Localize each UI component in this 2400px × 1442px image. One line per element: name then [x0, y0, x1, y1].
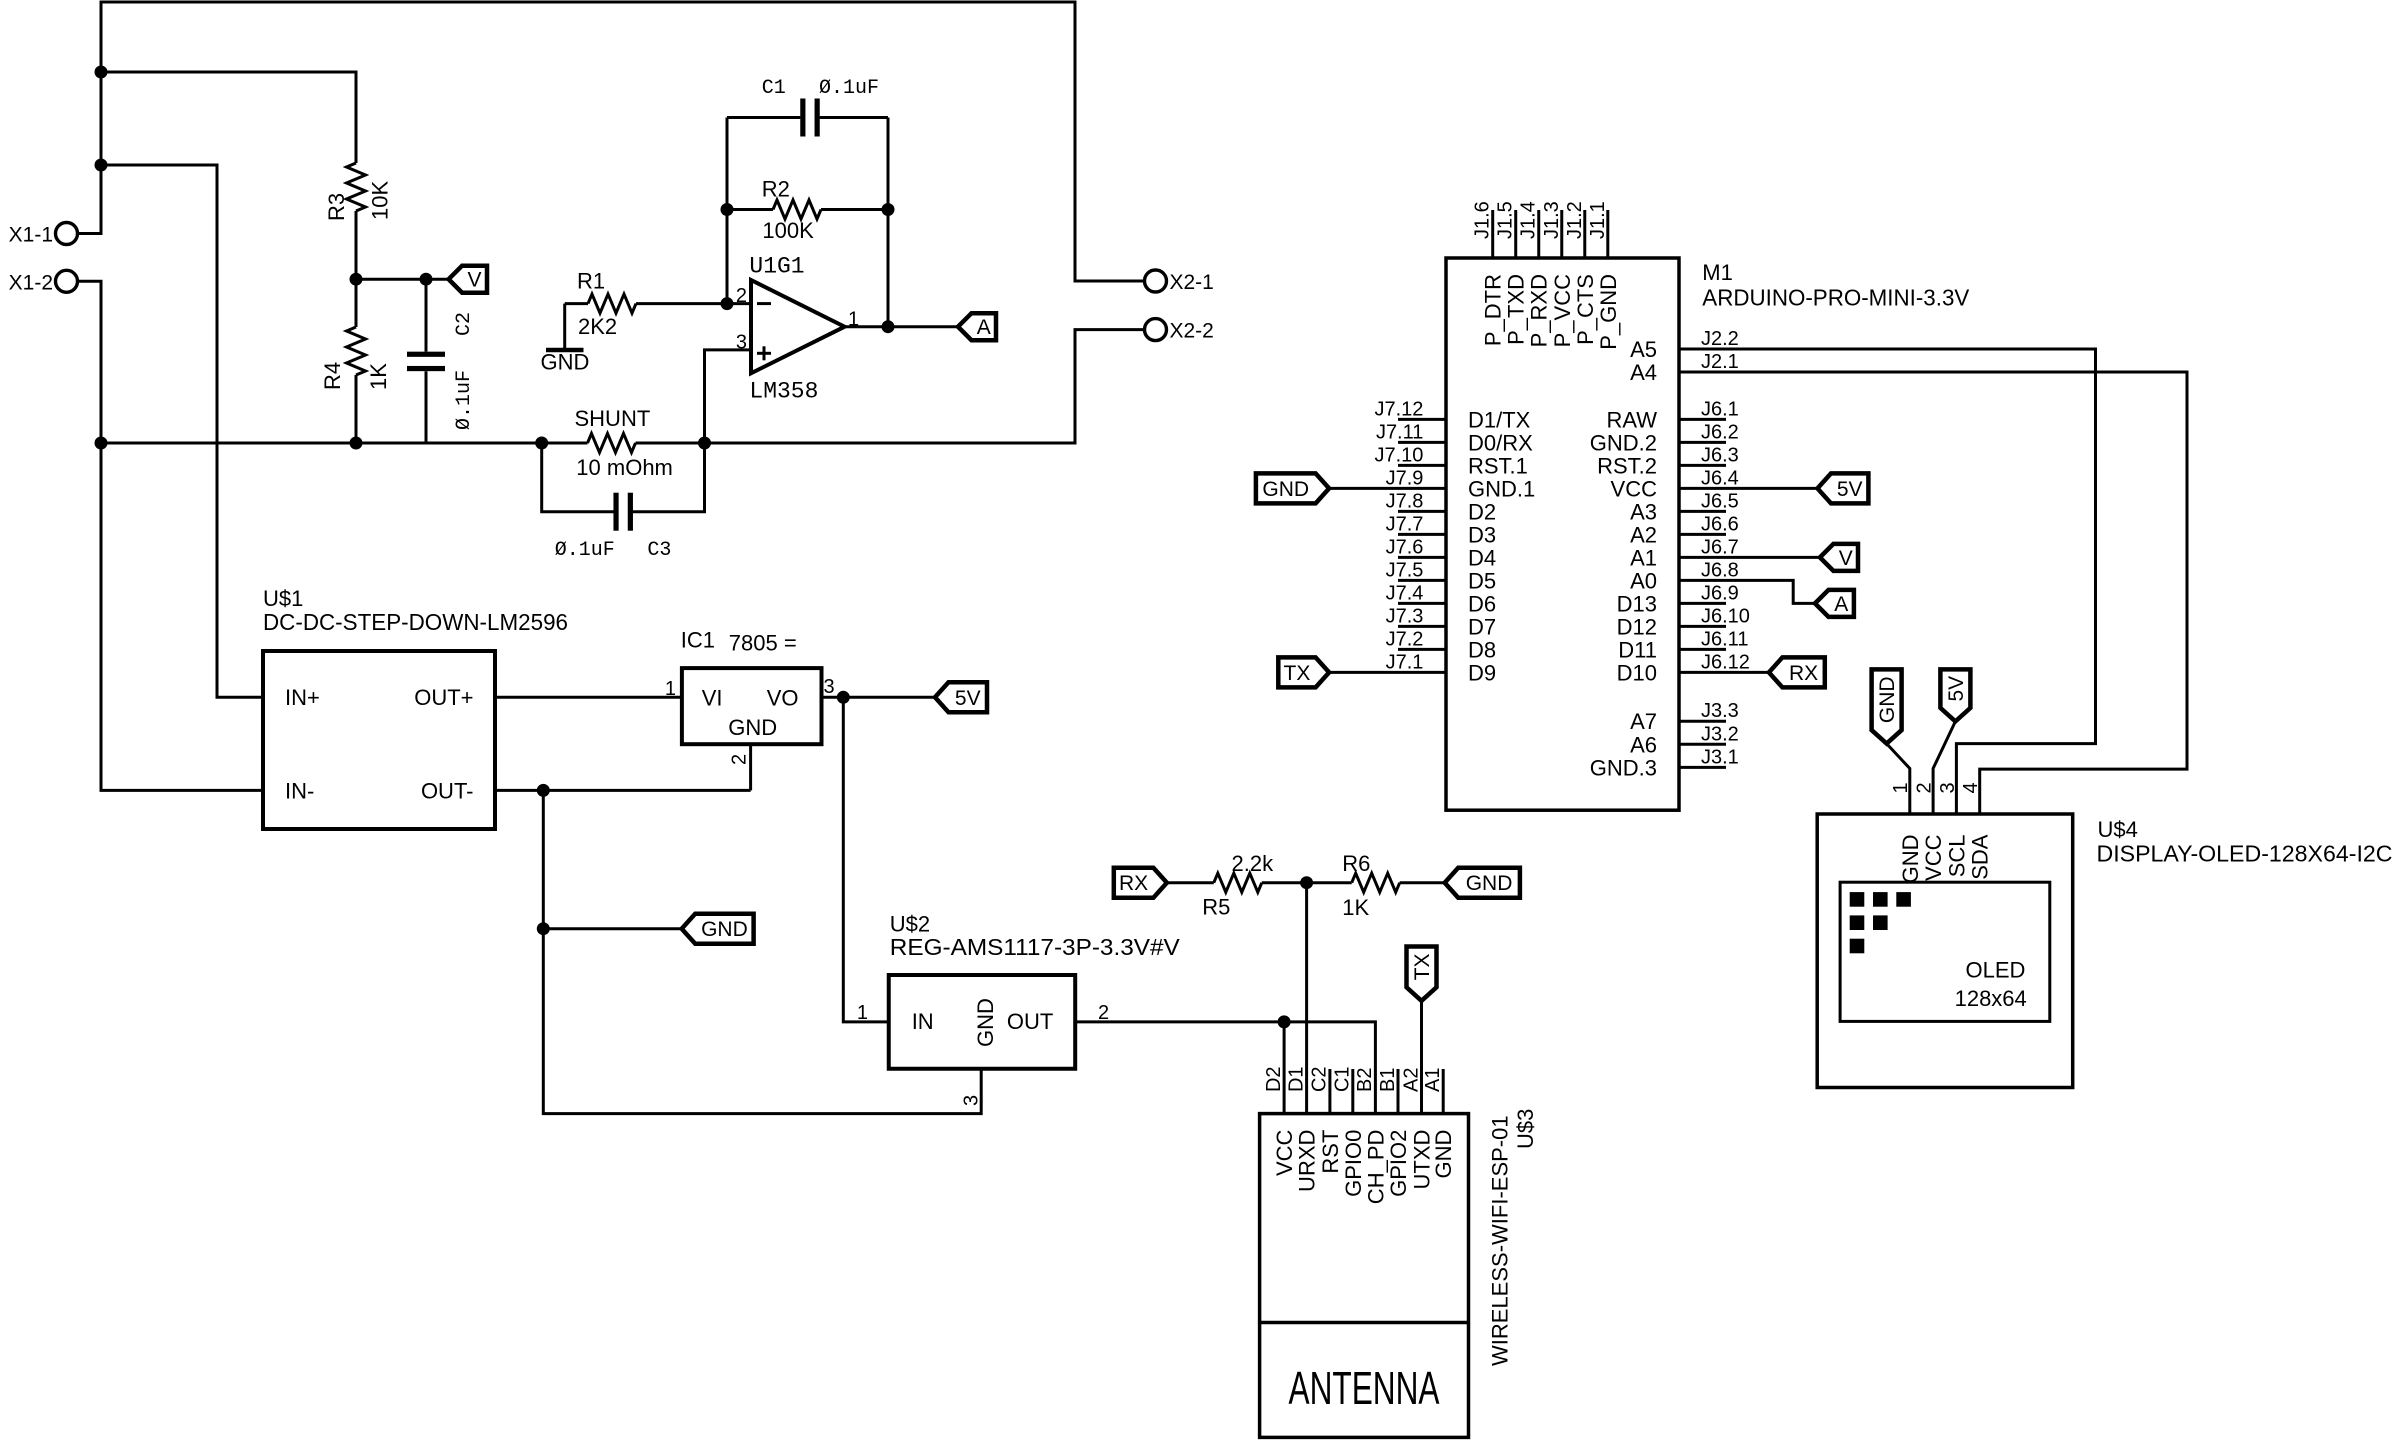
svg-text:V: V — [468, 269, 482, 292]
junction inverting input — [721, 297, 734, 310]
svg-text:IN+: IN+ — [285, 685, 320, 710]
svg-text:IC1: IC1 — [681, 627, 715, 652]
svg-text:GND.2: GND.2 — [1590, 430, 1657, 455]
OLED pixel pattern — [1850, 892, 1865, 907]
svg-text:J1.1: J1.1 — [1587, 201, 1609, 239]
svg-text:D7: D7 — [1468, 614, 1496, 639]
svg-text:J7.5: J7.5 — [1386, 559, 1424, 581]
wire OUT+ to IC1 VI — [495, 696, 682, 699]
svg-text:100K: 100K — [762, 218, 814, 243]
svg-text:X1-1: X1-1 — [9, 224, 53, 247]
svg-text:OUT: OUT — [1007, 1009, 1053, 1034]
svg-text:D12: D12 — [1617, 614, 1657, 639]
svg-text:J2.2: J2.2 — [1701, 328, 1739, 350]
svg-text:2: 2 — [728, 754, 750, 765]
regulator IC1 7805 — [682, 668, 822, 744]
svg-text:VCC: VCC — [1611, 476, 1658, 501]
junction 3.3V at ESP VCC — [1278, 1015, 1291, 1028]
connector X1-1 — [56, 223, 78, 245]
junction V node at C2 — [420, 273, 433, 286]
power flag GND at OLED pin 1 — [1872, 669, 1902, 743]
power flag RX at D10 — [1769, 657, 1825, 687]
power flag GND at GND.1 — [1256, 473, 1329, 503]
svg-text:5V: 5V — [1837, 478, 1863, 501]
pin stub J6.5 — [1679, 510, 1726, 513]
svg-text:A4: A4 — [1630, 360, 1657, 385]
connector X2-1 — [1145, 270, 1167, 292]
pin stub J7.11 — [1398, 441, 1446, 444]
power flag RX — [1114, 868, 1167, 898]
module U$3 WIRELESS-WIFI-ESP-01 — [1260, 1114, 1469, 1438]
wire GND flag to OLED pin 1 — [1887, 744, 1910, 814]
module M1 ARDUINO-PRO-MINI-3.3V — [1446, 258, 1679, 810]
svg-text:J7.4: J7.4 — [1386, 582, 1424, 604]
svg-text:D13: D13 — [1617, 591, 1657, 616]
svg-text:J6.8: J6.8 — [1701, 559, 1739, 581]
wire X1-2 down to U$1 IN- — [79, 281, 263, 790]
svg-text:J7.9: J7.9 — [1386, 467, 1424, 489]
wire shunt rail left — [101, 442, 588, 445]
wire R4 top — [355, 279, 358, 327]
op-amp U1G1 LM358 — [751, 280, 845, 373]
svg-text:DC-DC-STEP-DOWN-LM2596: DC-DC-STEP-DOWN-LM2596 — [263, 609, 568, 635]
junction R2 left — [721, 203, 734, 216]
svg-text:J6.10: J6.10 — [1701, 605, 1750, 627]
pin stub J7.4 — [1398, 602, 1446, 605]
wire GND rail down — [543, 790, 981, 1113]
svg-text:RX: RX — [1119, 872, 1148, 895]
svg-text:C2: C2 — [1309, 1066, 1331, 1092]
svg-text:J1.2: J1.2 — [1564, 201, 1586, 239]
resistor R6 — [1352, 873, 1400, 892]
svg-text:A: A — [977, 316, 991, 339]
wire op-amp pin3 to shunt — [705, 350, 752, 443]
wire branch to R3 top — [101, 72, 356, 163]
junction R2 right — [882, 203, 895, 216]
svg-text:D1: D1 — [1285, 1066, 1307, 1092]
svg-text:OUT+: OUT+ — [414, 685, 473, 710]
wire C3 left loop — [542, 443, 614, 512]
wire divider to ESP URXD — [1305, 883, 1308, 1114]
wire GND flag to GND.1 — [1329, 487, 1446, 490]
wire R1 left — [565, 302, 588, 305]
svg-text:GND: GND — [541, 350, 590, 375]
junction C3 right / op-amp + — [698, 437, 711, 450]
svg-text:U$4: U$4 — [2098, 817, 2138, 842]
svg-text:GPIO2: GPIO2 — [1386, 1130, 1411, 1197]
svg-text:U1G1: U1G1 — [749, 253, 804, 279]
svg-text:128x64: 128x64 — [1955, 986, 2027, 1011]
net J2.2 wire: A5 to OLED SCL — [1679, 349, 2096, 814]
svg-text:GND: GND — [1876, 676, 1899, 723]
svg-text:OUT-: OUT- — [421, 778, 474, 803]
svg-text:TX: TX — [1284, 662, 1311, 685]
svg-text:J6.7: J6.7 — [1701, 536, 1739, 558]
svg-text:IN-: IN- — [285, 778, 314, 803]
svg-text:TX: TX — [1411, 953, 1434, 980]
pin stub J1.6 — [1491, 210, 1494, 258]
net J2.1 wire: A4 to OLED SDA — [1679, 372, 2187, 814]
junction at R3 branch — [95, 66, 108, 79]
wire A1 to V flag — [1679, 556, 1820, 559]
module U$1 DC-DC-STEP-DOWN-LM2596 — [263, 651, 495, 829]
svg-text:DISPLAY-OLED-128X64-I2C: DISPLAY-OLED-128X64-I2C — [2097, 841, 2393, 867]
pin stub J6.10 — [1679, 625, 1726, 628]
svg-text:3: 3 — [1937, 782, 1959, 793]
resistor R4 — [347, 327, 366, 375]
wire branch to U$1 IN+ — [101, 165, 263, 697]
wire R2 left — [727, 208, 773, 211]
wire ESP VCC stub — [1283, 1022, 1286, 1114]
svg-text:3: 3 — [961, 1095, 983, 1106]
svg-text:J7.12: J7.12 — [1374, 398, 1423, 420]
wire D10 to RX flag — [1679, 671, 1769, 674]
svg-text:SDA: SDA — [1968, 834, 1993, 880]
svg-text:A1: A1 — [1422, 1068, 1444, 1092]
pin stub J1.4 — [1537, 210, 1540, 258]
svg-text:GND: GND — [1898, 835, 1923, 884]
svg-text:RST: RST — [1318, 1130, 1343, 1174]
svg-text:J6.6: J6.6 — [1701, 513, 1739, 535]
svg-text:D9: D9 — [1468, 660, 1496, 685]
svg-text:J1.5: J1.5 — [1495, 201, 1517, 239]
svg-text:J7.10: J7.10 — [1374, 444, 1423, 466]
wire A0 to A flag — [1679, 580, 1815, 603]
wire C1 right — [820, 116, 888, 119]
svg-text:J7.8: J7.8 — [1386, 490, 1424, 512]
svg-text:R1: R1 — [577, 269, 605, 294]
svg-text:C1: C1 — [1332, 1066, 1354, 1092]
connector X1-2 — [56, 270, 78, 292]
pin stub J6.11 — [1679, 648, 1726, 651]
svg-text:2.2k: 2.2k — [1232, 851, 1275, 876]
resistor R5 — [1214, 873, 1262, 892]
wire C2 top — [425, 279, 428, 351]
svg-text:5V: 5V — [955, 687, 981, 710]
power flag TX at D9 — [1278, 657, 1329, 687]
wire C2 bottom — [425, 371, 428, 443]
junction V node at R3/R4 — [350, 273, 363, 286]
power flag 5V at IC1 — [935, 682, 987, 712]
svg-text:GND.1: GND.1 — [1468, 476, 1535, 501]
svg-text:B2: B2 — [1354, 1068, 1376, 1092]
svg-text:4: 4 — [1960, 782, 1982, 793]
svg-text:R4: R4 — [320, 362, 345, 390]
svg-text:5V: 5V — [1945, 676, 1968, 702]
svg-text:R5: R5 — [1202, 895, 1230, 920]
svg-text:RST.1: RST.1 — [1468, 453, 1528, 478]
svg-text:GND: GND — [728, 715, 777, 740]
junction output/feedback — [882, 320, 895, 333]
svg-text:SCL: SCL — [1944, 835, 1969, 878]
svg-text:WIRELESS-WIFI-ESP-01: WIRELESS-WIFI-ESP-01 — [1488, 1115, 1513, 1366]
power flag GND at R6 — [1445, 868, 1520, 898]
svg-text:R6: R6 — [1342, 851, 1370, 876]
pin stub J3.3 — [1679, 720, 1726, 723]
pin stub J7.5 — [1398, 579, 1446, 582]
pin stub J1.5 — [1514, 210, 1517, 258]
svg-text:J1.4: J1.4 — [1518, 201, 1540, 239]
pin stub J7.2 — [1398, 648, 1446, 651]
pin stub B1 (ESP GPIO2) — [1397, 1069, 1400, 1114]
svg-text:R3: R3 — [324, 193, 349, 221]
svg-text:D5: D5 — [1468, 568, 1496, 593]
svg-text:SHUNT: SHUNT — [575, 406, 651, 431]
wire 5V flag to OLED pin 2 — [1933, 721, 1955, 814]
wire V node to V flag — [356, 278, 449, 281]
svg-text:X1-2: X1-2 — [9, 271, 53, 294]
svg-text:D4: D4 — [1468, 545, 1496, 570]
svg-text:J7.6: J7.6 — [1386, 536, 1424, 558]
power flag V — [449, 266, 487, 293]
junction R4 bottom — [350, 437, 363, 450]
resistor R3 — [347, 163, 366, 211]
pin stub J1.1 — [1606, 210, 1609, 258]
svg-text:M1: M1 — [1702, 260, 1733, 285]
svg-text:2K2: 2K2 — [578, 314, 617, 339]
svg-text:IN: IN — [912, 1009, 934, 1034]
svg-text:J3.3: J3.3 — [1701, 700, 1739, 722]
svg-text:7805 =: 7805 = — [729, 630, 797, 655]
svg-text:J6.4: J6.4 — [1701, 467, 1739, 489]
svg-text:J6.2: J6.2 — [1701, 421, 1739, 443]
svg-text:10K: 10K — [368, 181, 393, 220]
svg-text:J6.1: J6.1 — [1701, 398, 1739, 420]
power flag TX above ESP — [1407, 947, 1437, 1001]
svg-text:J7.2: J7.2 — [1386, 628, 1424, 650]
svg-text:CH_PD: CH_PD — [1363, 1130, 1388, 1205]
svg-text:1: 1 — [665, 678, 676, 700]
svg-text:LM358: LM358 — [749, 379, 818, 405]
wire TX flag to D9 — [1329, 671, 1446, 674]
wire R3 bottom to V node — [355, 211, 358, 279]
wire IC1 GND pin down to OUT- rail — [749, 744, 752, 790]
wire IC1 VO to 5V flag — [822, 696, 936, 699]
svg-text:A6: A6 — [1630, 732, 1657, 757]
wire R2 right — [821, 208, 888, 211]
svg-text:D2: D2 — [1263, 1066, 1285, 1092]
svg-text:A0: A0 — [1630, 568, 1657, 593]
wire feedback right vertical — [887, 118, 890, 327]
wire R5 to R6 — [1262, 881, 1352, 884]
svg-text:VO: VO — [767, 686, 799, 711]
svg-text:10 mOhm: 10 mOhm — [576, 455, 673, 480]
svg-text:D8: D8 — [1468, 637, 1496, 662]
svg-text:GND: GND — [1431, 1130, 1456, 1179]
svg-text:D10: D10 — [1617, 660, 1657, 685]
power flag GND at U$1 — [682, 914, 754, 944]
svg-text:U$2: U$2 — [890, 911, 930, 936]
svg-text:VI: VI — [702, 686, 723, 711]
resistor SHUNT — [588, 434, 636, 453]
svg-text:P_VCC: P_VCC — [1550, 274, 1575, 347]
svg-text:J3.2: J3.2 — [1701, 723, 1739, 745]
svg-text:ARDUINO-PRO-MINI-3.3V: ARDUINO-PRO-MINI-3.3V — [1702, 284, 1970, 310]
pin stub J6.3 — [1679, 464, 1726, 467]
wire OUT- rail — [495, 789, 751, 792]
svg-text:J3.1: J3.1 — [1701, 746, 1739, 768]
pin stub C1 (ESP GPIO0) — [1351, 1069, 1354, 1114]
svg-text:X2-2: X2-2 — [1170, 320, 1214, 343]
svg-text:J1.6: J1.6 — [1472, 201, 1494, 239]
svg-text:URXD: URXD — [1295, 1130, 1320, 1192]
pin stub J6.2 — [1679, 441, 1726, 444]
wire RX to R5 — [1167, 881, 1214, 884]
svg-text:Ø.1uF: Ø.1uF — [819, 77, 879, 100]
wire R1 to GND symbol — [563, 304, 566, 350]
svg-text:P_CTS: P_CTS — [1573, 274, 1598, 345]
svg-text:1K: 1K — [1342, 895, 1369, 920]
svg-text:A2: A2 — [1400, 1068, 1422, 1092]
svg-text:VCC: VCC — [1272, 1129, 1297, 1176]
svg-text:GND: GND — [1262, 478, 1309, 501]
svg-text:A3: A3 — [1630, 499, 1657, 524]
svg-text:A5: A5 — [1630, 337, 1657, 362]
svg-text:RST.2: RST.2 — [1597, 453, 1657, 478]
svg-text:D0/RX: D0/RX — [1468, 430, 1533, 455]
wire X1-1 to X2-1 top rail — [79, 2, 1144, 281]
wire R1 to op-amp pin 2 — [636, 302, 751, 305]
junction X1-2 net with shunt rail — [95, 437, 108, 450]
svg-text:Ø.1uF: Ø.1uF — [453, 370, 476, 430]
wire R4 bottom — [355, 375, 358, 443]
svg-text:B1: B1 — [1377, 1068, 1399, 1092]
pin stub J7.3 — [1398, 625, 1446, 628]
pin stub J7.6 — [1398, 556, 1446, 559]
svg-text:3: 3 — [824, 676, 835, 698]
svg-text:2: 2 — [736, 285, 747, 307]
pin stub C2 (ESP RST) — [1328, 1069, 1331, 1114]
svg-text:J2.1: J2.1 — [1701, 351, 1739, 373]
svg-text:D1/TX: D1/TX — [1468, 407, 1531, 432]
svg-text:V: V — [1839, 547, 1853, 570]
junction URXD divider — [1300, 876, 1313, 889]
svg-text:1: 1 — [857, 1002, 868, 1024]
svg-text:A2: A2 — [1630, 522, 1657, 547]
svg-text:J1.3: J1.3 — [1541, 201, 1563, 239]
wire op-amp output to A flag — [845, 325, 958, 328]
junction OUT- / GND rail — [537, 784, 550, 797]
pin stub A1 (ESP GND) — [1442, 1069, 1445, 1114]
svg-text:D11: D11 — [1618, 637, 1657, 662]
module U$4 DISPLAY-OLED-128X64-I2C — [1817, 814, 2073, 1088]
svg-text:GND: GND — [1466, 872, 1513, 895]
power flag A at A0 — [1815, 590, 1854, 617]
svg-text:J6.12: J6.12 — [1701, 651, 1750, 673]
junction C3 left — [535, 437, 548, 450]
svg-text:P_RXD: P_RXD — [1527, 274, 1552, 347]
svg-text:P_DTR: P_DTR — [1481, 274, 1506, 346]
svg-text:J6.11: J6.11 — [1701, 628, 1748, 650]
pin stub J7.12 — [1398, 418, 1446, 421]
svg-text:GPIO0: GPIO0 — [1341, 1130, 1366, 1197]
wire C1 left — [727, 116, 800, 119]
junction GND flag branch — [537, 922, 550, 935]
svg-text:1K: 1K — [366, 363, 391, 390]
power flag A — [958, 313, 996, 340]
svg-text:ANTENNA: ANTENNA — [1289, 1362, 1440, 1414]
svg-text:J7.11: J7.11 — [1376, 421, 1423, 443]
pin stub J1.2 — [1583, 210, 1586, 258]
svg-text:J7.7: J7.7 — [1386, 513, 1424, 535]
wire VCC to 5V flag — [1679, 487, 1818, 490]
power flag 5V at VCC — [1818, 473, 1869, 503]
svg-text:D3: D3 — [1468, 522, 1496, 547]
power flag V at A1 — [1820, 544, 1858, 571]
svg-text:J6.3: J6.3 — [1701, 444, 1739, 466]
svg-text:D2: D2 — [1468, 499, 1496, 524]
resistor R1 — [588, 294, 636, 313]
svg-text:A7: A7 — [1630, 709, 1657, 734]
OLED screen box — [1840, 882, 2050, 1021]
junction 5V rail — [837, 691, 850, 704]
svg-text:P_TXD: P_TXD — [1504, 274, 1529, 345]
svg-text:C3: C3 — [647, 539, 671, 562]
svg-text:GND: GND — [973, 998, 998, 1047]
pin stub J3.2 — [1679, 743, 1726, 746]
svg-text:U$3: U$3 — [1513, 1109, 1538, 1149]
svg-text:GND.3: GND.3 — [1590, 755, 1657, 780]
wire 5V rail down to U$2 IN — [843, 697, 888, 1022]
svg-text:J7.3: J7.3 — [1386, 605, 1424, 627]
pin stub J7.8 — [1398, 510, 1446, 513]
svg-text:C1: C1 — [762, 77, 786, 100]
wire shunt rail right to X2-2 — [636, 330, 1145, 443]
wire feedback left vertical — [726, 118, 729, 304]
pin stub J6.9 — [1679, 602, 1726, 605]
junction at IN+ branch — [95, 159, 108, 172]
wire R6 to GND flag — [1400, 881, 1445, 884]
wire TX flag to ESP UTXD — [1420, 1001, 1423, 1114]
svg-text:R2: R2 — [762, 177, 790, 202]
pin stub J7.7 — [1398, 533, 1446, 536]
svg-text:J7.1: J7.1 — [1386, 651, 1424, 673]
svg-text:X2-1: X2-1 — [1170, 271, 1214, 294]
svg-text:J6.5: J6.5 — [1701, 490, 1739, 512]
module U$2 REG-AMS1117 — [889, 975, 1075, 1069]
svg-text:GND: GND — [701, 918, 748, 941]
svg-text:C2: C2 — [453, 312, 476, 336]
wire U$2 OUT 3.3V rail to ESP — [1075, 1022, 1375, 1114]
wire GND rail branch to GND flag — [543, 927, 681, 930]
svg-text:J6.9: J6.9 — [1701, 582, 1739, 604]
svg-text:RAW: RAW — [1606, 407, 1657, 432]
svg-text:A1: A1 — [1630, 545, 1657, 570]
svg-text:Ø.1uF: Ø.1uF — [555, 539, 615, 562]
svg-text:U$1: U$1 — [263, 586, 303, 611]
svg-text:D6: D6 — [1468, 591, 1496, 616]
pin stub J7.10 — [1398, 464, 1446, 467]
connector X2-2 — [1145, 319, 1167, 341]
svg-text:A: A — [1834, 593, 1848, 616]
svg-text:RX: RX — [1789, 662, 1818, 685]
pin stub J3.1 — [1679, 766, 1726, 769]
svg-text:OLED: OLED — [1966, 958, 2026, 983]
svg-text:VCC: VCC — [1921, 834, 1946, 881]
wire C3 right loop — [633, 443, 705, 512]
resistor R2 — [773, 200, 821, 219]
svg-text:P_GND: P_GND — [1596, 274, 1621, 350]
svg-text:REG-AMS1117-3P-3.3V#V: REG-AMS1117-3P-3.3V#V — [890, 934, 1181, 960]
pin stub J1.3 — [1560, 210, 1563, 258]
pin stub J6.6 — [1679, 533, 1726, 536]
pin stub J6.1 — [1679, 418, 1726, 421]
power flag 5V at OLED pin 2 — [1940, 669, 1970, 721]
